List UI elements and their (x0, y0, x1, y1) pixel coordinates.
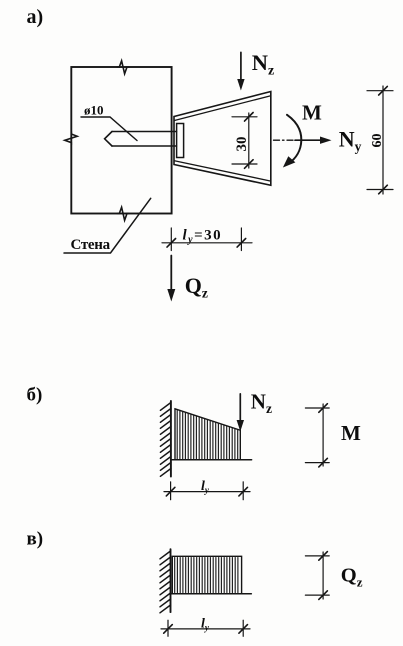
baseline (b) (171, 459, 252, 461)
wall rectangle (71, 67, 171, 214)
leader Stena (64, 198, 151, 253)
wall line (b) (170, 401, 172, 477)
anchor rod top line (112, 131, 177, 133)
svg-text:Nz: Nz (252, 50, 274, 79)
dimension Qz bracket (322, 552, 324, 599)
break mark top edge (117, 61, 129, 74)
svg-text:60: 60 (370, 134, 385, 148)
leader o10 (81, 117, 137, 141)
console inner top line (174, 96, 270, 121)
dimension 30 (vertical inside console) (248, 113, 250, 168)
svg-text:ly: ly (201, 617, 210, 633)
svg-text:б): б) (27, 385, 43, 406)
svg-text:Ny: Ny (339, 126, 362, 154)
svg-text:ø10: ø10 (84, 103, 104, 118)
console outer plate (174, 92, 271, 186)
svg-text:Qz: Qz (185, 273, 208, 300)
wall hatching (v) (160, 551, 171, 559)
moment diagram outline (b) (175, 409, 240, 460)
svg-text:Стена: Стена (71, 237, 111, 253)
break mark left edge (65, 132, 77, 146)
moment M arrowhead (283, 156, 296, 167)
shear diagram outline (v) (172, 556, 241, 593)
break mark bottom edge (117, 207, 129, 220)
shear diagram hatch (v) (174, 558, 176, 593)
svg-text:M: M (302, 101, 322, 125)
baseline (v) (171, 593, 252, 595)
dimension ly=30 (a) (162, 242, 252, 244)
anchor rod bottom line (112, 145, 177, 147)
svg-text:ly=30: ly=30 (183, 228, 223, 246)
dimension ly (v) (161, 628, 250, 630)
dimension M bracket (322, 404, 324, 466)
wall line (v) (170, 549, 172, 612)
svg-text:Nz: Nz (251, 389, 272, 416)
svg-text:в): в) (27, 529, 44, 550)
svg-text:ly: ly (201, 479, 210, 495)
force Nz arrow (b) (239, 394, 241, 423)
svg-text:M: M (341, 421, 361, 445)
console inner bottom line (174, 161, 270, 181)
force Ny arrow (295, 139, 322, 141)
force Qz arrow (a) (170, 256, 172, 293)
anchor rod pointed end (105, 132, 112, 147)
svg-text:Qz: Qz (341, 565, 363, 590)
dimension 60 (vertical right) (382, 86, 384, 194)
svg-text:а): а) (27, 6, 44, 28)
anchor end plate (177, 124, 184, 158)
moment diagram hatch (b) (176, 410, 178, 459)
centerline dash-dot (274, 139, 298, 141)
force Nz arrow (a) (240, 52, 242, 82)
dimension ly (b) (164, 491, 250, 493)
svg-text:30: 30 (234, 137, 250, 152)
moment M arc (287, 115, 301, 164)
wall hatching (b) (160, 403, 171, 411)
